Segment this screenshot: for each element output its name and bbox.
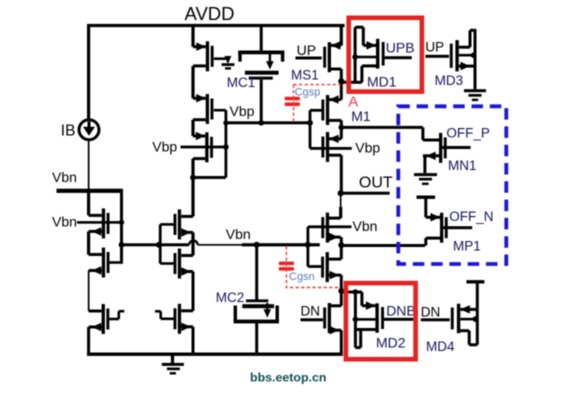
transistor M-mid-1 (mirror NMOS) (178, 209, 181, 239)
wire: DN gate lead to MD4 (421, 318, 450, 321)
node: M1 drain junction (339, 125, 345, 131)
svg-text:MC2: MC2 (216, 290, 245, 305)
wire: MN1 source to ground (423, 156, 426, 173)
svg-text:OFF_N: OFF_N (449, 209, 493, 224)
node: M-left gate junction (119, 220, 124, 225)
wire: UP gate lead to MS1 (295, 57, 321, 60)
wire: source M-mid-2 to drain M-bot-2 (192, 272, 195, 311)
transistor MD1 (dummy, S/D shorted) (362, 64, 376, 67)
node: gates junction on Vbn rail (156, 242, 162, 248)
wire: gate line Vbp through cascode (310, 147, 352, 150)
ground symbol (171, 354, 174, 363)
transistor M-casc-P (PMOS cascode, gate Vbp) (326, 132, 329, 162)
wire: gate stub M-left-3 (107, 318, 119, 321)
svg-text:AVDD: AVDD (185, 3, 235, 24)
red highlight box around MD1 (349, 18, 422, 92)
node A junction (338, 78, 344, 84)
svg-text:MD2: MD2 (376, 335, 406, 351)
svg-text:bbs.eetop.cn: bbs.eetop.cn (250, 371, 326, 385)
wire: source M-mid-1 to drain M-mid-2 (191, 232, 194, 255)
wire: MN1 gate lead OFF_P (442, 146, 470, 149)
svg-text:Vbn: Vbn (52, 169, 77, 185)
wire: M-P2 drain to M-P3 source (191, 120, 194, 136)
svg-text:MD1: MD1 (367, 73, 397, 89)
transistor M-bot-2 (bottom NMOS) (178, 304, 181, 334)
node: MC2 junction (254, 242, 260, 248)
svg-text:UPB: UPB (386, 40, 415, 56)
supply stub (MD4) (466, 280, 484, 283)
transistor M-left-3 (bottom NMOS) (102, 304, 105, 334)
node: M1/cascode gates junction (307, 120, 313, 126)
transistor M-P2 (PMOS, gate Vbp) (206, 94, 209, 124)
transistor MD4 (dummy PMOS to supply) (457, 304, 460, 334)
ground rail (87, 353, 343, 356)
svg-text:Vbn: Vbn (226, 226, 251, 242)
wire: AVDD drop to PMOS pair (191, 24, 194, 47)
wire: OUT down to N-cascode (thin then thick) (340, 193, 342, 207)
wire: N-casc source down (340, 237, 343, 245)
wire: gate line Vbn to M-left-1 (77, 221, 120, 224)
wire: gate M-P2 to Vbp node (214, 109, 226, 112)
wire: Vbn bias vertical (120, 189, 123, 263)
wire: gate M-left-2 to Vbn rail (107, 261, 123, 264)
node Vbn (left stub) (57, 189, 123, 193)
wire: MD1 gate lead UPB (385, 56, 412, 59)
svg-text:MN1: MN1 (448, 158, 477, 173)
svg-text:MD4: MD4 (426, 339, 455, 354)
svg-text:MC1: MC1 (227, 75, 256, 90)
wire: gate stub M-bot-2 (161, 318, 176, 321)
node: Vbp corner (223, 120, 228, 125)
svg-text:MD3: MD3 (435, 73, 464, 88)
svg-text:IB: IB (61, 123, 76, 140)
svg-text:Vbp: Vbp (152, 139, 177, 155)
node: DN drain junction (338, 288, 344, 294)
wire: source M-left-3 to ground rail (87, 327, 90, 354)
wire: Vbn rail down to MC2 (255, 245, 258, 300)
wire: source M-bot-2 to ground rail (192, 327, 195, 354)
transistor MP1 (OFF_N switch PMOS) (440, 213, 443, 243)
wire: UP gate lead to MD3 (425, 55, 449, 58)
transistor M-mirror-N (NMOS, gate Vbn) (326, 252, 329, 282)
wire: node A to M1 source (340, 81, 343, 99)
svg-text:M1: M1 (351, 108, 371, 124)
wire: cascode source up to M1 drain line (340, 127, 343, 138)
wire: AVDD rail end down to MS1 source (340, 24, 343, 45)
node OUT junction (338, 190, 344, 196)
substrate tap symbol (arrow into bars) (224, 56, 231, 64)
AVDD rail (87, 24, 345, 27)
net OUT line (341, 192, 390, 195)
wire: MP1 gate lead OFF_N (443, 226, 472, 229)
node: Vbn rail junction (119, 242, 125, 248)
wire: Cgsn dashed leads (286, 246, 339, 287)
transistor M-casc-N (NMOS cascode, gate Vbn) (326, 213, 329, 243)
svg-text:Vbp: Vbp (230, 103, 255, 119)
wire: M1 gate to Vbp (310, 109, 322, 112)
wire: OFF_P line corner into MN1 (421, 127, 424, 140)
svg-text:MP1: MP1 (453, 239, 481, 254)
node: OFF_N junction (338, 242, 344, 248)
node: MC1 junction (258, 120, 264, 126)
wire: gate lead M-P3 (181, 146, 227, 149)
wire: line to MP1 (OFF_N switch) (341, 244, 425, 247)
current source IB (79, 120, 99, 140)
wire: MC2 to ground rail (255, 322, 258, 355)
wire: PMOS mirror output down-link (191, 159, 194, 217)
transistor M-P3 (diode PMOS, generates Vbp) (205, 132, 208, 162)
capacitor MC2 (MOS cap) (246, 299, 268, 302)
wire: DN gate lead (301, 318, 323, 321)
wire: gate line Vbn through N-cascode (308, 225, 352, 228)
wire: MD2 gate lead DNB (384, 318, 414, 321)
wire: M-P3 diode connection down-left (225, 147, 228, 178)
transistor MN1 (OFF_P switch NMOS) (439, 133, 442, 163)
wire: gate M-mid-1 to Vbn rail (160, 223, 176, 226)
transistor MD2 (dummy, S/D shorted) (362, 304, 376, 307)
wire: drain link rail-IB column to M-left-1 (87, 189, 90, 215)
wire: gate M-P1 lead (214, 57, 227, 60)
wire: MS1 drain to node A (340, 69, 343, 81)
svg-text:Vbp: Vbp (355, 139, 380, 155)
wire: MP1 drain corner to OFF_N line (424, 238, 427, 245)
node: output cascode gates junction (305, 242, 311, 248)
blue dashed box (off switches) (398, 106, 506, 264)
ground symbol (MD3) (464, 89, 486, 92)
wire: IB to Vbn node (thin) (88, 140, 90, 190)
svg-text:DN: DN (421, 304, 441, 319)
wire: source M-left-1 to drain M-left-2 (87, 231, 90, 254)
svg-text:OFF_P: OFF_P (446, 126, 490, 141)
wire: DN source to ground rail (340, 330, 343, 354)
svg-text:Cgsn: Cgsn (289, 271, 315, 283)
svg-text:DNB: DNB (386, 302, 416, 318)
svg-text:DN: DN (301, 304, 321, 319)
net Vbp line (224, 121, 310, 124)
wire: M-P1 drain to M-P2 source (191, 66, 194, 98)
wire: line to MN1 (OFF_P switch) (341, 126, 423, 129)
wire: M1 drain corner to OFF_P line (340, 120, 343, 127)
wire: mirror gate to Vbn rail (308, 265, 321, 268)
transistor M-DN (DN switch NMOS) (328, 303, 331, 333)
transistor M-left-1 (diode NMOS, gate Vbn) (102, 208, 105, 238)
svg-text:OUT: OUT (359, 175, 393, 192)
svg-text:UP: UP (425, 40, 444, 55)
supply stub (MP1) (417, 196, 436, 199)
wire: Cgsp dashed leads (294, 85, 341, 121)
capacitor Cgsn (parasitic, red) (279, 262, 294, 266)
wire: source M-left-2 to drain M-left-3 (thin) (88, 271, 90, 312)
wire: node A into MD1 short (341, 81, 362, 84)
transistor MS1 (UP switch PMOS) (328, 42, 331, 72)
transistor M-mid-2 (cascode NMOS) (178, 249, 181, 279)
transistor M-left-2 (cascode NMOS) (102, 248, 105, 278)
wire: gate M-mid-2 (160, 262, 176, 265)
wire hop over column (189, 241, 197, 245)
node: M-P3 drain junction (190, 175, 196, 181)
capacitor Cgsp (parasitic, red) (285, 97, 300, 101)
wire: AVDD drop to MC1 (260, 24, 263, 51)
svg-text:Vbn: Vbn (353, 218, 378, 234)
net Vbn rail (horizontal) (122, 243, 190, 246)
node: M-P3 gate-drain tie (223, 144, 229, 150)
red highlight box around MD2 (346, 283, 416, 359)
ground symbol (MN1) (414, 173, 437, 176)
wire: MC1 to Vbp line (260, 80, 263, 123)
capacitor MC1 (MOS cap) (238, 51, 284, 55)
svg-text:Cgsp: Cgsp (295, 87, 321, 99)
wire: cascode drain to OUT (340, 155, 343, 193)
wire: DN node into MD2 short (341, 291, 362, 294)
svg-text:UP: UP (297, 42, 316, 58)
transistor M-P1 (top PMOS) (206, 41, 209, 71)
transistor M1 (PMOS) (326, 95, 329, 125)
transistor MD3 (dummy NMOS to ground) (455, 40, 458, 71)
svg-text:MS1: MS1 (291, 67, 319, 82)
svg-text:Vbn: Vbn (52, 214, 77, 230)
wire: left column from AVDD to IB (87, 24, 90, 121)
wire: mirror source down to DN drain (340, 275, 343, 291)
